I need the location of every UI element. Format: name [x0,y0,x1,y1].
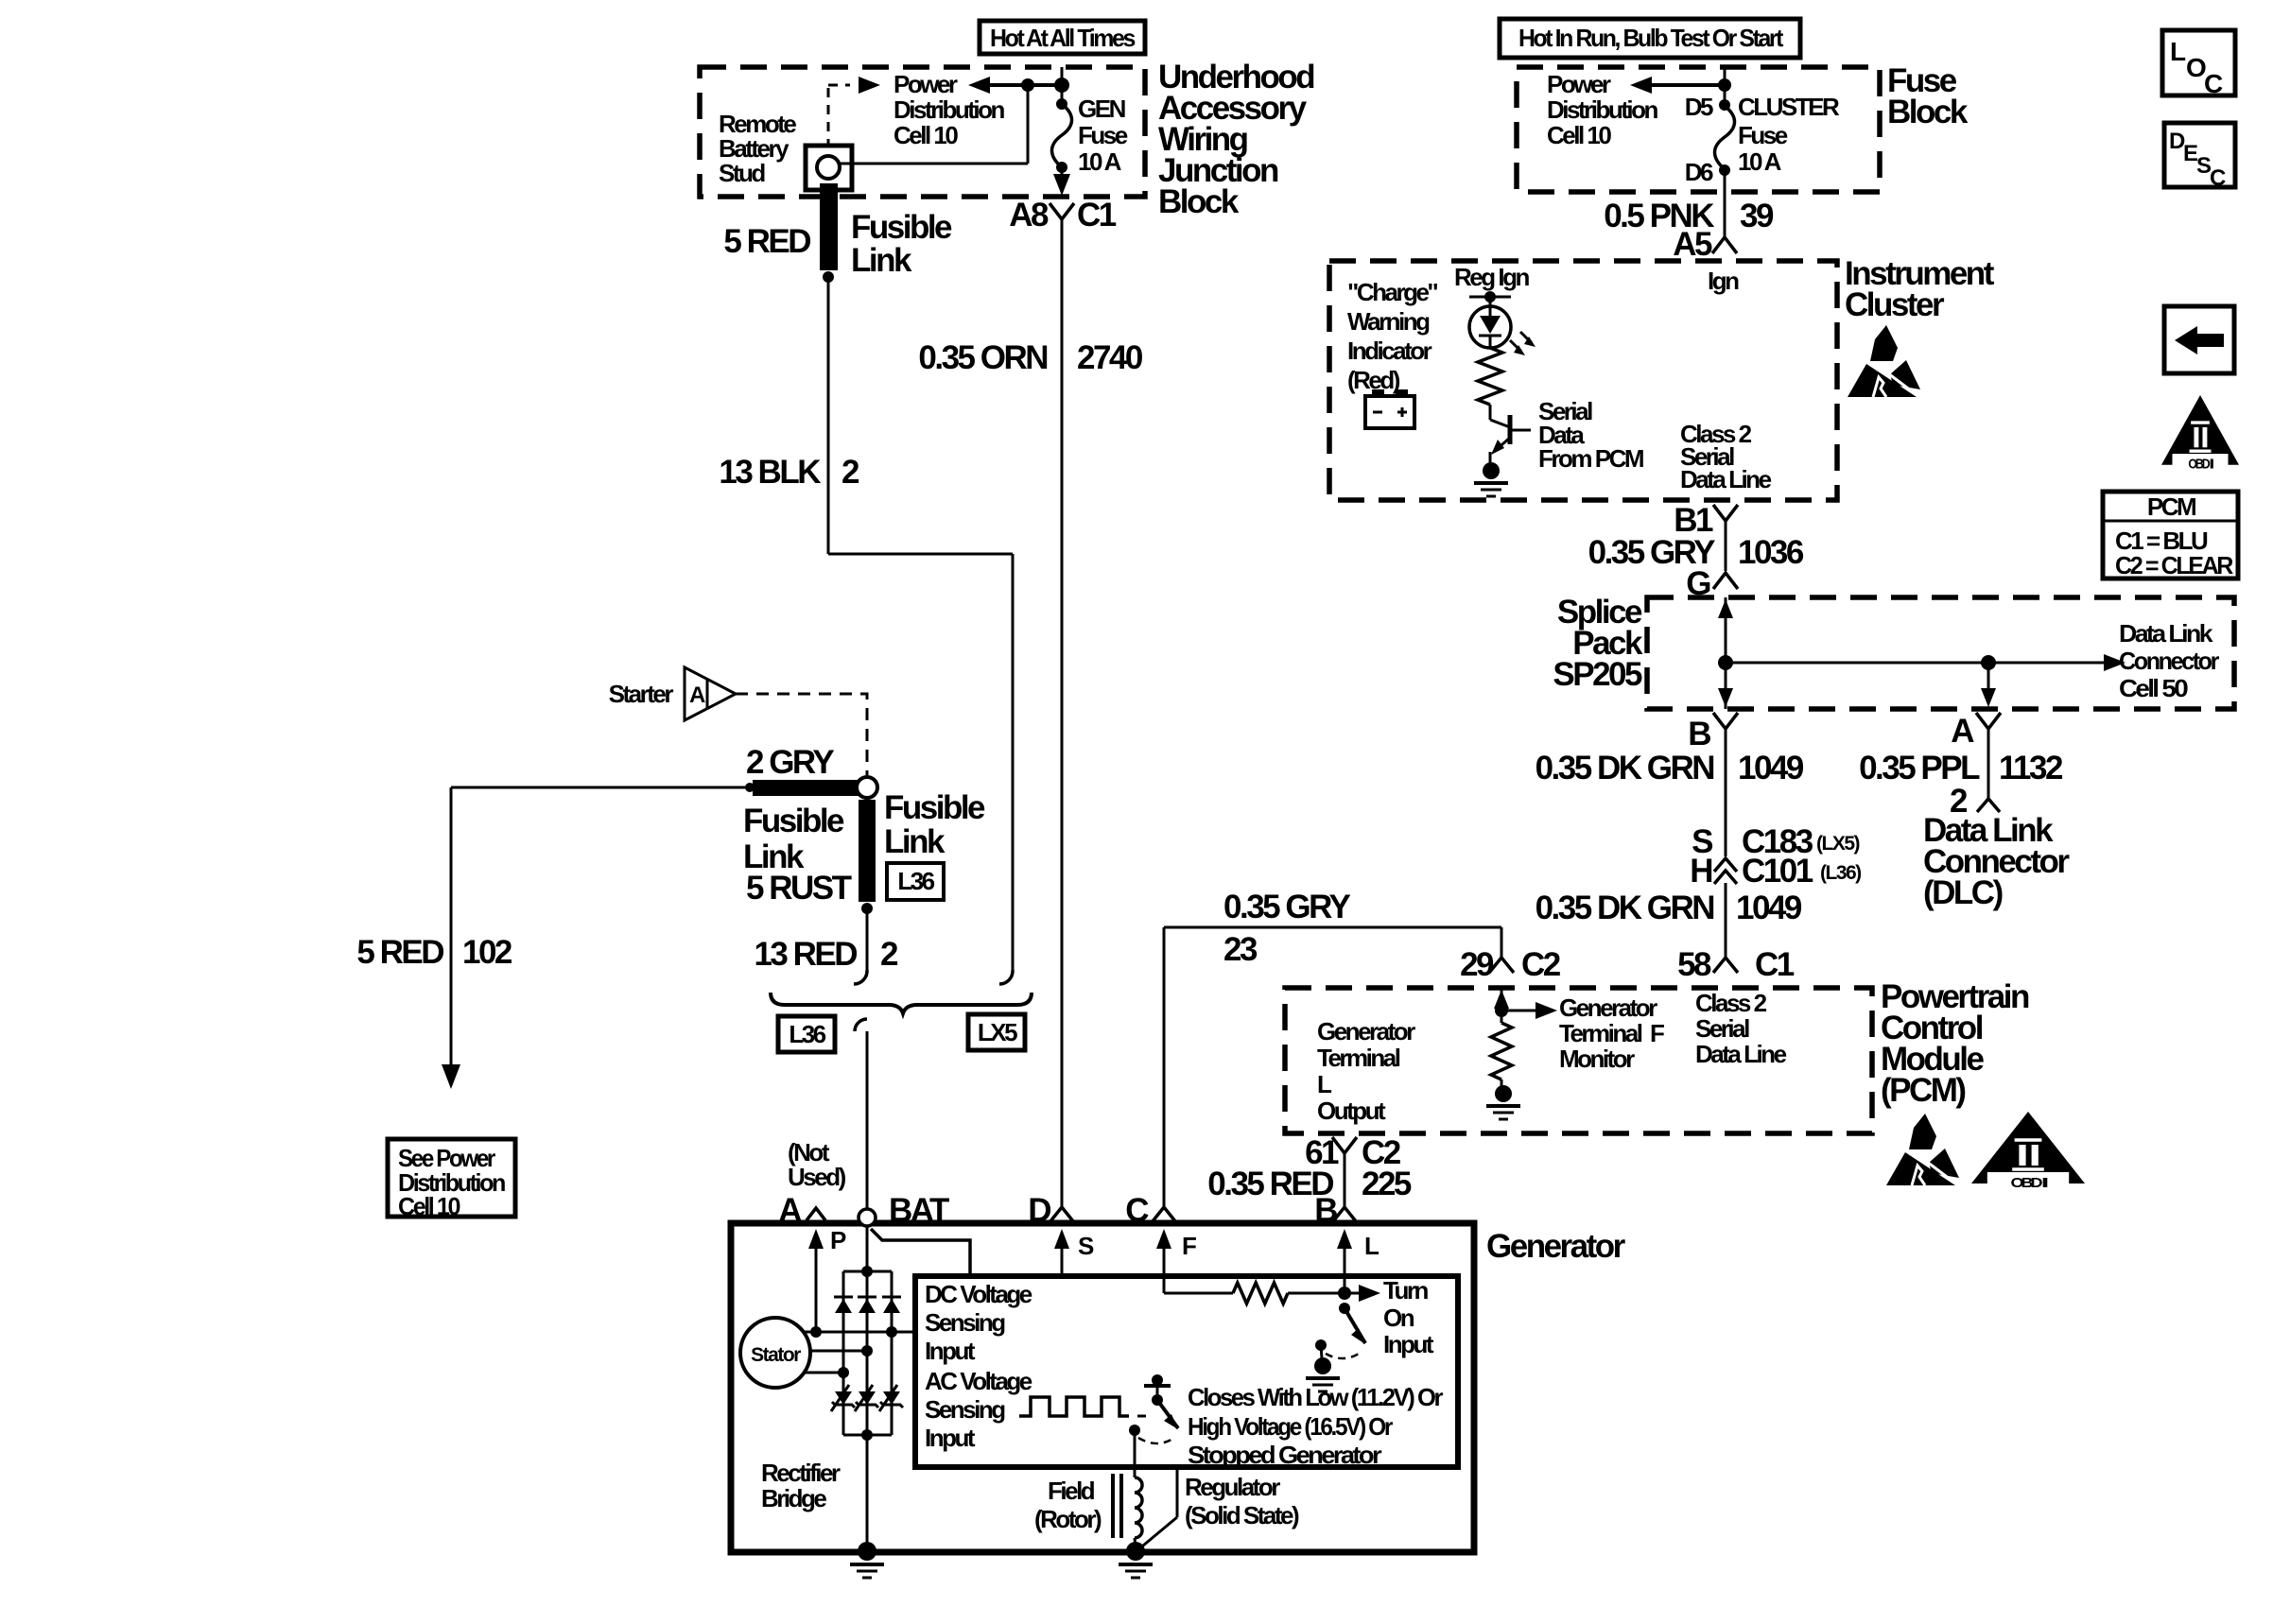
svg-text:Fusible: Fusible [884,789,985,826]
svg-text:Generator: Generator [1317,1017,1415,1045]
text: A (generator pin) [778,1192,802,1229]
svg-text:2740: 2740 [1077,339,1143,376]
node: GEN fuse feed [1054,78,1069,93]
text: C (generator pin) [1125,1192,1149,1229]
svg-text:A8: A8 [1009,197,1049,233]
svg-text:Data Line: Data Line [1695,1040,1787,1068]
ESD symbol (PCM) [1886,1114,1959,1185]
svg-text:Used): Used) [788,1163,846,1191]
text: Underhood Accessory Wiring Junction Block [1158,59,1314,220]
text: 5 RED | 102 [356,934,512,971]
svg-text:Fuse: Fuse [1738,121,1788,149]
battery icon (charge indicator) [1365,389,1414,428]
svg-text:H: H [1690,853,1711,890]
svg-text:A: A [1951,713,1974,750]
voltage switch (field control) [1129,1374,1178,1477]
svg-text:PCM: PCM [2147,492,2195,521]
connector 58/C1 (fork at PCM) [1713,958,1738,973]
powertrain control module (dashed box) [1285,988,1872,1133]
dashed stub from stud to power-distribution arrow [828,85,850,144]
svg-text:Link: Link [884,823,946,860]
svg-text:102: 102 [462,934,512,971]
svg-text:Closes With Low (11.2V) Or: Closes With Low (11.2V) Or [1188,1383,1443,1411]
svg-text:2 GRY: 2 GRY [746,744,834,781]
text: Closes With Low (11.2V) Or High Voltage (16.5V) Or Stopped Generator [1188,1383,1443,1469]
remote battery stud (box+terminal circle) [806,146,852,190]
wire: 0.35 GRY 23 (generator F monitor) [1164,927,1501,1206]
svg-text:1049: 1049 [1738,750,1804,786]
svg-text:Fusible: Fusible [851,209,952,246]
svg-text:23: 23 [1223,931,1258,968]
svg-text:5 RED: 5 RED [356,934,443,971]
svg-text:Input: Input [1383,1330,1434,1358]
pin S (arrow) [1054,1229,1069,1276]
svg-text:LX5: LX5 [978,1018,1017,1046]
text: Class 2 Serial Data Line (cluster) [1680,420,1772,493]
rectifier diodes (top row) [834,1297,901,1313]
junction ring (fusible links) [857,777,877,798]
text: B1 [1674,502,1713,539]
text: G [1686,565,1710,602]
text: Powertrain Control Module (PCM) [1881,978,2029,1109]
arrow from feed to Power Distribution (left-pointing) [968,77,1062,94]
pin L (arrow) [1337,1229,1352,1293]
svg-text:29: 29 [1460,946,1494,983]
svg-text:10 A: 10 A [1078,147,1122,176]
text: 5 RED [723,223,810,260]
BAT terminal (ring) [859,1209,876,1226]
wire: junction block top feed [1061,67,1064,104]
svg-text:Hot In Run, Bulb Test Or Start: Hot In Run, Bulb Test Or Start [1518,24,1784,52]
wire: 0.35 GRY 1036 [1725,541,1727,571]
svg-text:Class 2: Class 2 [1695,989,1767,1017]
text: 0.35 DK GRN | 1049 (upper) [1536,750,1804,786]
fuse: CLUSTER Fuse 10 A (D5-D6) [1715,99,1735,192]
svg-text:10 A: 10 A [1738,147,1782,176]
svg-text:B: B [1688,716,1710,752]
svg-text:Turn: Turn [1383,1276,1428,1304]
svg-text:L: L [2170,37,2186,66]
svg-text:C: C [2204,69,2223,98]
svg-text:Monitor: Monitor [1559,1045,1635,1073]
text: 5 RUST [746,870,852,907]
svg-text:Stator: Stator [751,1344,801,1366]
text: 0.35 ORN | 2740 [918,339,1143,376]
svg-text:Bridge: Bridge [761,1484,826,1512]
text: 61 | C2 [1305,1134,1401,1171]
fusible link (5 RUST, vertical) [859,800,876,914]
code box: LX5 (variant) [968,1014,1025,1050]
svg-text:(Rotor): (Rotor) [1034,1505,1102,1533]
wire: 13 RED 2 [854,908,867,984]
svg-text:(LX5): (LX5) [1816,833,1860,855]
svg-text:D: D [1028,1192,1050,1229]
svg-text:Block: Block [1158,183,1240,220]
text: H | C101 (L36) [1690,853,1861,890]
text: Data Link Connector Cell 50 [2119,619,2219,702]
wire: 0.5 PNK 39 [1724,192,1726,236]
starter symbol (triangle A) [685,667,736,720]
svg-text:Cell 50: Cell 50 [2119,674,2188,702]
text: Starter [609,680,674,708]
svg-text:High Voltage (16.5V) Or: High Voltage (16.5V) Or [1188,1412,1393,1441]
svg-text:Generator: Generator [1486,1228,1626,1265]
svg-text:39: 39 [1740,198,1774,234]
svg-text:C101: C101 [1742,853,1813,890]
svg-text:SP205: SP205 [1553,656,1642,693]
svg-text:GEN: GEN [1078,95,1126,123]
connector B (fork at generator) [1333,1207,1356,1221]
text: Rectifier Bridge [761,1459,841,1512]
svg-text:Terminal: Terminal [1317,1044,1400,1072]
icon: LOC box [2162,30,2235,98]
svg-text:Power: Power [894,70,958,98]
text: 0.35 PPL | 1132 [1859,750,2063,786]
svg-text:F: F [1182,1232,1196,1260]
PCM F-monitor input [1494,988,1557,1023]
text: "Charge" Warning Indicator (Red) [1347,278,1437,394]
code box: L36 (fusible link) [887,863,944,900]
svg-text:Sensing: Sensing [925,1308,1005,1337]
svg-text:Data Line: Data Line [1680,465,1772,493]
text: S | C183 (LX5) [1692,823,1859,860]
text: 13 BLK | 2 [719,454,859,491]
transistor (serial data driver) [1490,405,1531,455]
text: AC Voltage Sensing Input [925,1367,1032,1452]
svg-text:F: F [1650,1019,1664,1047]
svg-text:CLUSTER: CLUSTER [1738,93,1840,121]
text: F [1182,1232,1196,1260]
wire: 0.35 ORN 2740 (A8 to generator D) [1061,219,1064,1206]
text: Fusible Link (left) [743,803,844,875]
svg-text:C1: C1 [1755,946,1795,983]
instrument cluster (dashed box) [1329,261,1837,500]
wire: common feed to generator BAT [855,1019,867,1208]
ESD symbol (instrument cluster) [1848,325,1920,397]
svg-text:1036: 1036 [1738,534,1804,571]
text: Power Distribution Cell 10 (junction block) [894,70,1004,149]
svg-text:5 RUST: 5 RUST [746,870,852,907]
svg-text:Stud: Stud [719,159,765,187]
ground (cluster driver) [1474,452,1508,496]
svg-text:L36: L36 [897,867,934,895]
connector 2 (fork at DLC) [1977,799,2000,812]
svg-text:0.35 PPL: 0.35 PPL [1859,750,1980,786]
brace (engine variants) [771,993,1032,1013]
fusible link (2 GRY, horizontal) [753,780,859,796]
connector D (fork at generator) [1050,1207,1073,1221]
svg-text:Fusible: Fusible [743,803,844,839]
text: Instrument Cluster [1845,255,1995,323]
text: Turn On Input [1383,1276,1434,1358]
text: Fuse Block [1887,62,1969,130]
wire: DC voltage sense tap [871,1229,970,1276]
svg-text:"Charge": "Charge" [1347,278,1437,306]
resistor (turn-on input) [1164,1283,1360,1304]
svg-text:Cell 10: Cell 10 [398,1192,460,1220]
text: A5 [1673,226,1712,263]
svg-text:(Red): (Red) [1347,366,1400,394]
svg-text:A: A [689,682,705,708]
splice pack SP205 (dashed box) [1647,597,2234,709]
svg-text:2: 2 [842,454,859,491]
svg-text:BAT: BAT [889,1192,949,1229]
charge indicator LED [1469,297,1511,348]
text: Generator [1486,1228,1626,1265]
svg-text:Distribution: Distribution [894,95,1004,124]
svg-text:Cell 10: Cell 10 [1547,121,1611,149]
text: D (generator pin) [1028,1192,1050,1229]
regulator ground pointer [1137,1467,1177,1550]
svg-text:Input: Input [925,1424,976,1452]
text: A8 | C1 [1009,197,1117,233]
text: Power Distribution Cell 10 (fuse block) [1547,70,1657,149]
wire: 2 GRY feed [451,783,755,792]
AC sense square wave [1019,1397,1152,1416]
svg-text:Fuse: Fuse [1078,121,1128,149]
LED light arrows [1510,332,1536,355]
connector C (fork at generator) [1153,1207,1175,1221]
svg-text:Starter: Starter [609,680,674,708]
text: Serial Data From PCM [1538,397,1643,473]
text: Data Link Connector (DLC) [1923,812,2070,911]
text: L [1364,1232,1379,1260]
wire: 5 RED 102 (arrow down) [442,787,460,1089]
svg-text:A: A [778,1192,802,1229]
svg-text:Block: Block [1887,94,1969,130]
field rotor coil [1113,1430,1142,1548]
junction block: Underhood Accessory Wiring Junction Block (dashed box) [700,67,1145,197]
legend box: PCM connectors [2103,492,2238,579]
connector 61/C2 (fork) [1332,1137,1357,1206]
text: 0.5 PNK | 39 [1604,198,1774,234]
text: Fusible Link (right) [884,789,985,860]
svg-text:2: 2 [880,936,898,973]
svg-text:C1: C1 [1077,197,1117,233]
connector A (fork, DLC branch) [1976,713,2001,799]
ground (PCM) [1486,1080,1520,1119]
svg-text:225: 225 [1362,1166,1412,1202]
svg-text:L36: L36 [789,1020,825,1048]
connector A8/C1 (fork) [1050,203,1074,219]
rectifier bridge rails [843,1266,892,1441]
svg-text:Warning: Warning [1347,307,1430,336]
label box: Hot In Run, Bulb Test Or Start [1500,19,1800,58]
connector B1 (fork) [1713,505,1738,541]
svg-text:Rectifier: Rectifier [761,1459,841,1487]
text: Generator Terminal L Output [1317,1017,1415,1125]
text: 13 RED | 2 [754,936,898,973]
svg-text:0.35 DK GRN: 0.35 DK GRN [1536,750,1714,786]
OBD II symbol (PCM) [1971,1112,2085,1191]
connector A (generator, not used) [807,1208,825,1220]
text: Class 2 Serial Data Line (PCM) [1695,989,1787,1068]
svg-text:Cell 10: Cell 10 [894,121,958,149]
wire: stud to feed node [840,78,1034,164]
text: P [830,1226,846,1254]
pin F (arrow) [1156,1229,1171,1293]
text: Field (Rotor) [1034,1477,1102,1533]
svg-text:13 BLK: 13 BLK [719,454,821,491]
text: 2 GRY [746,744,834,781]
svg-text:C: C [2210,165,2226,191]
text: A (DLC) [1951,713,1974,750]
arrow to Power Distribution (right-pointing) [859,77,880,94]
icon: back arrow box [2164,306,2234,373]
svg-text:AC Voltage: AC Voltage [925,1367,1032,1395]
svg-text:Link: Link [851,242,912,279]
reference box: See Power Distribution Cell 10 [388,1139,515,1220]
text: DC Voltage Sensing Input [925,1280,1032,1365]
regulator (box) [915,1276,1458,1467]
svg-text:0.35 DK GRN: 0.35 DK GRN [1536,890,1714,926]
text: (Not Used) [788,1138,846,1191]
svg-text:Regulator: Regulator [1185,1473,1280,1501]
svg-text:Data Link: Data Link [2119,619,2213,648]
fuse: GEN Fuse 10 A [1052,98,1072,196]
svg-text:D5: D5 [1685,93,1713,121]
connector B (fork) [1713,713,1738,856]
svg-text:1049: 1049 [1736,890,1802,926]
icon: DESC box [2164,123,2235,191]
svg-text:C2: C2 [1521,946,1561,983]
label box: Hot At All Times [980,21,1145,54]
text: B [1688,716,1710,752]
stator [740,1318,810,1388]
text: 29 | C2 [1460,946,1561,983]
svg-text:Hot At All Times: Hot At All Times [990,24,1136,52]
svg-text:5 RED: 5 RED [723,223,810,260]
svg-text:Connector: Connector [2119,647,2219,675]
svg-text:(DLC): (DLC) [1923,874,2003,911]
text: S [1078,1232,1094,1260]
svg-text:Power: Power [1547,70,1611,98]
svg-text:From PCM: From PCM [1538,444,1643,473]
wire: BAT bus [866,1226,869,1548]
svg-text:Terminal: Terminal [1559,1019,1642,1047]
wire: fuse block feed [1724,67,1726,105]
text: 0.35 RED | 225 [1207,1166,1412,1202]
svg-text:DC Voltage: DC Voltage [925,1280,1032,1308]
rectifier zener diodes (bottom row) [831,1385,903,1411]
text: 0.35 DK GRN | 1049 (lower) [1536,890,1802,926]
svg-text:(PCM): (PCM) [1881,1072,1965,1109]
svg-text:Output: Output [1317,1097,1386,1125]
svg-text:Input: Input [925,1337,976,1365]
generator (box) [731,1223,1474,1552]
text: 2 (DLC pin) [1950,783,1968,820]
wire: 13 BLK 2 (stud to engine brace) [828,277,1013,984]
pin P (arrow) [808,1229,824,1332]
ground (rectifier) [850,1542,884,1578]
svg-text:Stopped Generator: Stopped Generator [1188,1441,1381,1469]
svg-text:On: On [1383,1304,1414,1332]
turn-on arrow + switch [1315,1285,1380,1358]
svg-text:D6: D6 [1685,158,1713,186]
svg-text:58: 58 [1677,946,1711,983]
resistor (PCM F monitor) [1491,1023,1512,1080]
text: Splice Pack SP205 [1553,594,1643,693]
text: GEN Fuse 10 A [1078,95,1128,176]
svg-text:S: S [1078,1232,1094,1260]
connector 29/C2 (fork at PCM) [1489,958,1514,973]
svg-text:Cluster: Cluster [1845,286,1945,323]
code box: L36 (variant) [778,1016,835,1052]
text: 0.35 GRY | 1036 [1588,534,1804,571]
text: Reg Ign [1454,263,1529,291]
svg-text:0.35 GRY: 0.35 GRY [1223,889,1351,925]
text: BAT [889,1192,949,1229]
svg-text:(Solid State): (Solid State) [1185,1501,1299,1529]
text: Remote Battery Stud [719,110,796,187]
svg-text:A5: A5 [1673,226,1712,263]
fusible link (5 RED) [820,183,838,283]
text: 58 | C1 [1677,946,1795,983]
ground (turn-on switch) [1306,1357,1340,1391]
text: Regulator (Solid State) [1185,1473,1299,1529]
stator phase wires [803,1326,914,1378]
text: D5 [1685,93,1713,121]
text: CLUSTER Fuse 10 A [1738,93,1840,176]
resistor (charge indicator) [1478,348,1502,405]
svg-text:Indicator: Indicator [1347,337,1432,365]
svg-text:1132: 1132 [1999,750,2063,786]
node: Reg Ign supply [1469,291,1511,302]
connector A5 (fork) [1712,237,1737,253]
text: D6 [1685,158,1713,186]
splice bus (SP205) [1718,597,2126,709]
fuse block (dashed box) [1517,67,1880,192]
svg-text:Sensing: Sensing [925,1395,1005,1424]
svg-text:Field: Field [1048,1477,1095,1505]
svg-text:P: P [830,1226,846,1254]
text: Generator Terminal F Monitor [1559,993,1664,1073]
icon: OBD II triangle (top right) [2161,395,2239,472]
text: Fusible Link (5 RED) [851,209,952,279]
svg-text:Ign: Ign [1708,267,1739,295]
svg-text:B: B [1314,1192,1337,1229]
svg-text:Generator: Generator [1559,993,1657,1022]
ground (field) [1119,1542,1153,1578]
text: Ign [1708,267,1739,295]
text: 0.35 GRY / 23 [1223,889,1351,968]
svg-text:Distribution: Distribution [1547,95,1657,124]
dashed wire: starter to fusible link [736,694,867,775]
arrow to Power Distribution (fuse block) [1630,77,1731,94]
svg-text:C2 = CLEAR: C2 = CLEAR [2115,551,2234,579]
svg-text:Serial: Serial [1695,1014,1749,1043]
svg-text:13 RED: 13 RED [754,936,857,973]
svg-text:(L36): (L36) [1820,862,1861,884]
svg-text:C: C [1125,1192,1149,1229]
connector C183/C101 (S/H) [1714,858,1737,957]
connector G (fork) [1713,573,1738,589]
svg-text:Reg Ign: Reg Ign [1454,263,1529,291]
text: B (generator pin) [1314,1192,1337,1229]
svg-text:0.35 ORN: 0.35 ORN [918,339,1047,376]
